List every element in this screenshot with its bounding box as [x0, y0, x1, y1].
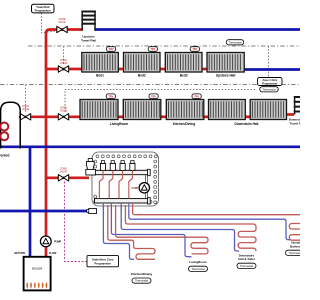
manifold plate screw dots [96, 155, 99, 158]
wire cylinder zone valve [25, 85, 27, 113]
svg-text:TRV: TRV [108, 95, 113, 98]
red stub r2 1-2 [118, 115, 124, 118]
UFH manifold plate [92, 152, 159, 206]
wire downstairs thermostat run [65, 90, 257, 113]
svg-text:Thermostat: Thermostat [288, 251, 300, 255]
svg-text:VALVE: VALVE [60, 171, 68, 174]
manifold loop pipes blue stubs below [103, 203, 128, 210]
thermostat downstairs hall [260, 87, 279, 92]
svg-text:PUMP: PUMP [54, 241, 62, 244]
red stub Bed2-Bed3 [160, 68, 165, 71]
svg-text:VALVE: VALVE [60, 110, 68, 113]
svg-text:Bed3: Bed3 [180, 73, 188, 77]
svg-text:LivingRoom: LivingRoom [110, 122, 129, 126]
pump (boiler circuit) [40, 236, 51, 247]
red branch underfloor manifold [46, 176, 89, 179]
svg-text:Bed2: Bed2 [138, 73, 146, 77]
radiator row2 #5 [250, 100, 286, 120]
blue boiler return riser [29, 147, 32, 258]
boiler [24, 257, 51, 291]
svg-text:Kitchen/Dining: Kitchen/Dining [173, 122, 196, 126]
UFH run: downstairs hall pair [125, 205, 256, 251]
red stub Bed1-Bed2 [118, 68, 123, 71]
thermostat upstairs bathroom [286, 250, 305, 255]
svg-text:Programmer: Programmer [94, 261, 112, 265]
red branch row1 bedrooms [46, 68, 82, 71]
red flow pump to boiler [45, 247, 48, 259]
radiator Upstairs Hall [207, 53, 244, 73]
svg-text:Upstairs Hall: Upstairs Hall [216, 73, 236, 77]
hot water cylinder (unvented) [1, 102, 21, 148]
towel rail programmer label [32, 4, 55, 13]
svg-text:Zone 1 Only: Zone 1 Only [262, 78, 277, 82]
red stub r2 2-3 [161, 115, 167, 118]
UFH loop upstairs bathroom comb [289, 224, 300, 241]
svg-text:Programmer: Programmer [35, 9, 51, 13]
svg-text:TRV: TRV [150, 48, 155, 51]
wire upstairs thermostat to zone valve V1 [63, 46, 65, 65]
blue return mid main [0, 145, 300, 148]
red stub r2 4-5 [245, 115, 250, 118]
underfloor zone programmer label [87, 256, 119, 267]
thermostat kitchen/dining [132, 278, 151, 283]
manifold internal pipework [145, 173, 148, 201]
svg-text:Downstairs Hall: Downstairs Hall [235, 122, 259, 126]
upstairs floor dash-dot line [28, 45, 300, 47]
thermostat upstairs hall [226, 40, 244, 45]
blue return underfloor manifold [0, 210, 90, 213]
manifold bar end caps [148, 169, 151, 175]
svg-text:Thermostat: Thermostat [240, 264, 253, 268]
svg-text:BOILER: BOILER [32, 266, 42, 270]
UFH run: kitchen pair [108, 205, 155, 259]
svg-text:Thermostat: Thermostat [191, 267, 204, 271]
boiler flames [27, 283, 47, 289]
svg-text:FLOW: FLOW [49, 252, 57, 255]
svg-text:LivingRoom: LivingRoom [189, 260, 207, 264]
red stub Bed3-Hall [202, 68, 207, 71]
blue return row1 (after Upstairs Hall) [244, 68, 300, 71]
zone 1 only programmer label [258, 78, 283, 86]
thermostat downstairs hall&toilet [237, 263, 256, 268]
thermostat living room [189, 266, 208, 271]
svg-text:VALVE: VALVE [60, 62, 68, 65]
downstairs floor dash-dot line [0, 84, 300, 86]
svg-text:TRV: TRV [192, 48, 197, 51]
manifold return bar [95, 199, 150, 203]
thermostatic mixing valve head [88, 159, 92, 162]
TRV Bed3 [190, 47, 199, 52]
UFH run: living room pair [116, 205, 208, 254]
svg-text:Thermostat: Thermostat [228, 40, 241, 44]
svg-text:TRV: TRV [109, 48, 114, 51]
svg-text:Bathroom: Bathroom [290, 244, 300, 248]
svg-text:TRV: TRV [194, 95, 199, 98]
svg-text:Unvented: Unvented [0, 154, 10, 158]
TRV row2 #2 [149, 94, 158, 99]
radiator row2 #2 [123, 100, 161, 120]
svg-text:Thermostat: Thermostat [262, 87, 275, 91]
manifold flow bar [95, 170, 150, 174]
TRV row2 #1 [106, 94, 115, 99]
svg-text:Programmer: Programmer [262, 81, 277, 85]
manifold loop pipes red drops [99, 170, 132, 198]
blue return top main (from upstairs towel rail) [96, 28, 301, 31]
TRV Bed1 [107, 47, 116, 52]
svg-text:Hall & Toilet: Hall & Toilet [238, 257, 255, 261]
cylinder coil turns [0, 123, 8, 131]
UFH pump [139, 183, 149, 193]
wire underfloor zone programmer (magenta) [65, 182, 88, 262]
radiator row2 #4 [209, 100, 246, 120]
manifold loop valve 3 [120, 163, 125, 170]
svg-text:VALVE: VALVE [22, 108, 30, 111]
svg-text:Bed1: Bed1 [96, 73, 104, 77]
manifold return inlet fitting [89, 209, 97, 214]
svg-text:VALVE: VALVE [58, 21, 66, 24]
svg-text:Thermostat: Thermostat [135, 279, 148, 283]
red stub r2 3-4 [204, 115, 209, 118]
svg-text:TRV: TRV [151, 95, 156, 98]
radiator Bed2 [124, 53, 161, 73]
radiator row2 #3 [166, 100, 204, 120]
svg-text:PUMP: PUMP [132, 188, 139, 190]
radiator Bed3 [165, 53, 202, 73]
svg-text:RETURN: RETURN [15, 252, 26, 255]
radiator Bed1 [82, 53, 119, 73]
svg-text:Kitchen/Dining: Kitchen/Dining [131, 272, 152, 276]
wire zone1 programmer drop [268, 46, 270, 78]
upstairs towel rail radiator [81, 11, 95, 31]
red stub r2 5-towelrail [287, 113, 295, 116]
TRV Bed2 [148, 47, 157, 52]
UFH run: upstairs bathroom pair [133, 203, 300, 215]
manifold loop valve 2 [110, 163, 115, 170]
TRV row2 #3 [192, 94, 201, 99]
red flow main riser + top towel rail feed [46, 30, 82, 237]
radiator row2 #1 [80, 100, 118, 120]
manifold loop valve 1 [100, 163, 105, 170]
svg-text:Towel Rail: Towel Rail [81, 38, 96, 42]
svg-text:Towel Rail: Towel Rail [290, 122, 300, 126]
red branch row2 + cylinder coil feed [19, 115, 81, 118]
manifold loop valve 4 [130, 163, 135, 170]
wire towel rail programmer to zone valve [42, 13, 59, 33]
downstairs towel rail radiator [294, 96, 306, 114]
svg-text:Towel Rail: Towel Rail [36, 5, 49, 9]
